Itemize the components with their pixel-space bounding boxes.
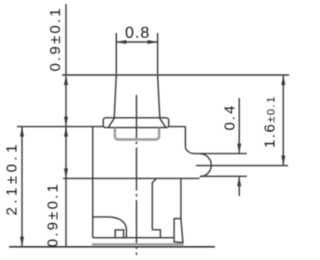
s-curve to terminal	[185, 147, 196, 153]
left dim line vertical (0.9 top + 0.9 bottom shared)	[65, 4, 67, 247]
svg-text:0.9±0.1: 0.9±0.1	[45, 182, 62, 247]
dim 0.4 arrows	[237, 144, 241, 187]
right foot (terminal leg)	[174, 219, 183, 243]
flange	[103, 118, 169, 128]
left peg	[115, 230, 123, 238]
body top line with left extension	[17, 126, 103, 128]
stem top extension line	[62, 74, 289, 76]
flange inner chamfer left	[108, 119, 114, 128]
flange inner chamfer right	[160, 119, 166, 128]
dim 2.1 line	[21, 127, 23, 247]
dim 1.6 line	[282, 75, 284, 166]
stem (plunger)	[114, 75, 160, 118]
terminal seating line	[196, 165, 288, 167]
arrows on left 0.9 dims	[64, 75, 68, 178]
ledge line with left extension	[63, 177, 200, 179]
body right edge	[184, 127, 186, 148]
step at bottom center	[152, 230, 160, 238]
svg-text:0.4: 0.4	[222, 104, 239, 131]
body left edge	[92, 127, 94, 238]
terminal top edge	[196, 153, 247, 155]
dim 0.8 arrows	[116, 40, 157, 44]
inner wall left with chamfer	[152, 178, 156, 229]
terminal bottom edge	[200, 175, 247, 177]
svg-text:0.9±0.1: 0.9±0.1	[47, 6, 64, 71]
center line (dash-dot)	[136, 95, 138, 255]
dim 0.8 line	[116, 41, 157, 43]
left rounded step	[93, 217, 127, 238]
gray bushing under flange	[115, 128, 159, 140]
svg-text:2.1±0.1: 2.1±0.1	[4, 141, 21, 215]
svg-text:1.6±0.1: 1.6±0.1	[262, 95, 279, 148]
dim 0.8 extension lines	[115, 33, 117, 74]
dim 2.1 arrows	[20, 127, 24, 247]
dim 1.6 arrows	[281, 75, 285, 166]
gray seating line	[92, 243, 184, 245]
bottom extension line	[9, 246, 215, 248]
inner wall right	[180, 178, 182, 218]
body bottom line	[93, 237, 174, 239]
dim 0.4 line lower	[238, 176, 240, 196]
svg-text:0.8: 0.8	[125, 25, 150, 42]
terminal fold arc	[200, 154, 211, 177]
dim 0.4 line upper	[238, 98, 240, 154]
